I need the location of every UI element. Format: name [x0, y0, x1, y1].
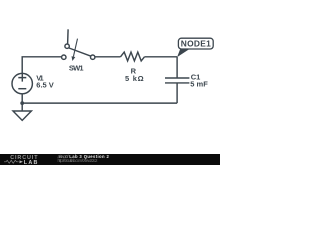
svg-text:http://circuitlab.com/c/4ew22c: http://circuitlab.com/c/4ew22c2	[58, 158, 99, 163]
wire capacitor bottom down	[176, 83, 178, 103]
svg-text:NODE1: NODE1	[181, 38, 211, 48]
svg-text:5 mF: 5 mF	[190, 80, 208, 89]
wire V1 bottom to ground junction	[21, 94, 23, 103]
node flag pointer	[177, 49, 189, 57]
footer logo arrow	[20, 160, 23, 163]
switch SW1	[62, 55, 66, 59]
junction dot	[20, 101, 24, 105]
svg-text:SW1: SW1	[69, 63, 84, 72]
wire from V1 top to switch left terminal	[22, 57, 61, 74]
svg-text:5 kΩ: 5 kΩ	[125, 74, 144, 83]
node NODE1 box	[178, 38, 213, 49]
svg-text:LAB: LAB	[24, 160, 38, 165]
footer logo zigzag	[4, 160, 19, 163]
bottom wire	[22, 102, 177, 104]
footer bar	[0, 154, 220, 165]
svg-text:6.5 V: 6.5 V	[36, 80, 54, 89]
switch arrow head	[72, 56, 76, 61]
ground	[21, 103, 23, 111]
voltage source V1	[12, 73, 32, 93]
wire from resistor to node corner	[145, 56, 178, 58]
capacitor C1	[165, 78, 189, 83]
wire from switch right terminal to resistor	[95, 56, 121, 58]
wire node corner down to capacitor	[176, 57, 178, 78]
resistor R	[121, 52, 145, 61]
